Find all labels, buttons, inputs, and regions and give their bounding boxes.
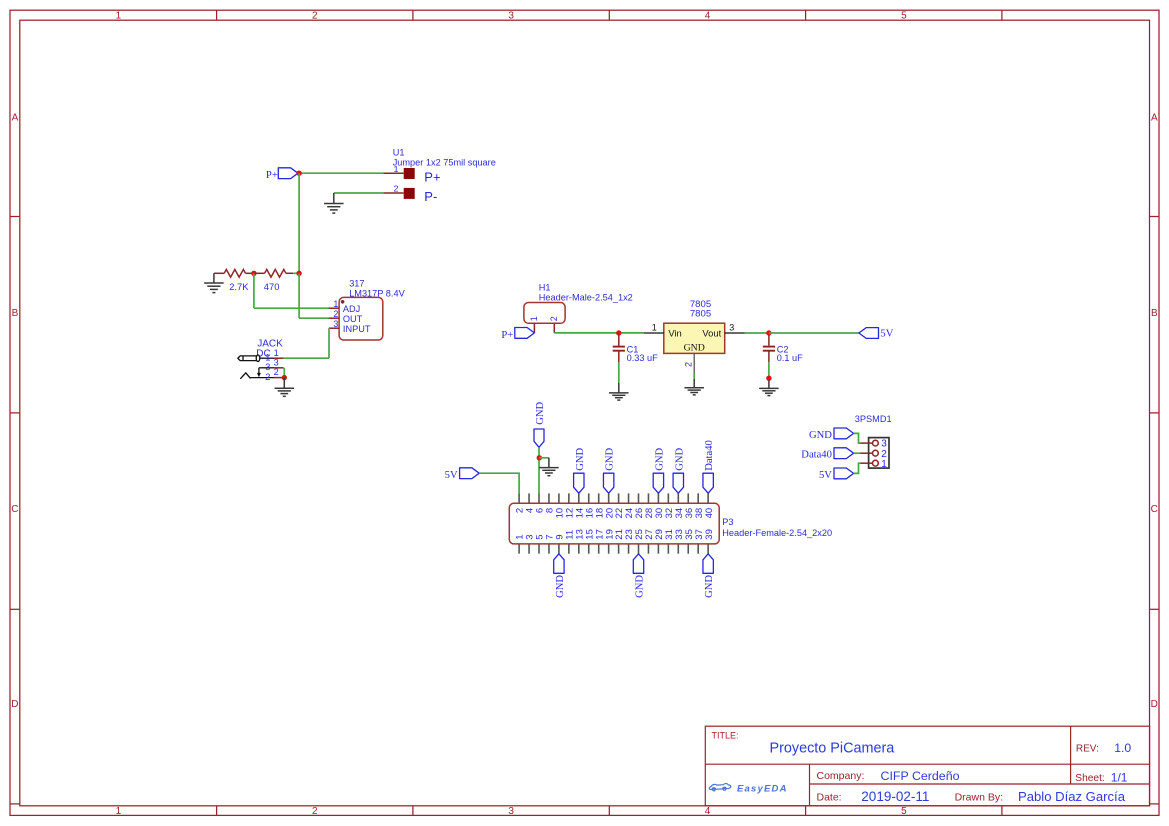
- U1 pin 1: [383, 172, 403, 174]
- svg-text:Proyecto PiCamera: Proyecto PiCamera: [770, 741, 895, 757]
- svg-text:3: 3: [508, 11, 514, 22]
- svg-text:5V: 5V: [445, 470, 458, 481]
- svg-text:GND: GND: [605, 447, 616, 470]
- wire GND to pin 3: [854, 433, 861, 443]
- wire INPUT down and left to jack: [328, 328, 330, 358]
- svg-text:1.0: 1.0: [1114, 741, 1131, 755]
- R2 body: [254, 272, 265, 274]
- svg-text:0.1 uF: 0.1 uF: [777, 353, 803, 363]
- J1 pin 3: [274, 367, 284, 369]
- wire jack pin3 to pin2: [283, 368, 285, 378]
- wire 5V to pin 1: [854, 463, 861, 473]
- svg-text:Company:: Company:: [817, 770, 865, 782]
- H1 pin 2: [553, 323, 555, 333]
- svg-text:EasyEDA: EasyEDA: [737, 784, 788, 795]
- svg-text:U1: U1: [393, 148, 405, 158]
- ground near P3 pin 6: [548, 458, 550, 468]
- svg-text:3: 3: [265, 362, 270, 372]
- net port GND (P3 pin 14): [574, 473, 584, 493]
- svg-text:Data40: Data40: [801, 450, 832, 461]
- U2 pin 1: [329, 307, 339, 309]
- svg-text:2: 2: [394, 184, 399, 194]
- svg-text:GND: GND: [704, 575, 715, 598]
- junction C1: [616, 330, 621, 335]
- 3PSMD1 pin 1: [860, 462, 873, 464]
- svg-text:2: 2: [274, 367, 279, 377]
- svg-text:40: 40: [704, 508, 715, 519]
- svg-text:1: 1: [333, 299, 338, 309]
- wire P+ down to resistor node: [298, 173, 300, 273]
- junction R1/R2: [251, 271, 256, 276]
- svg-text:1: 1: [394, 164, 399, 174]
- C2 body: [768, 335, 770, 346]
- resistor R2 470: [254, 269, 293, 292]
- net port GND (3PSMD1 pin 3): [834, 428, 854, 439]
- svg-text:2: 2: [333, 309, 338, 319]
- svg-text:Data40: Data40: [704, 440, 715, 471]
- wire node down to OUT level: [298, 273, 300, 318]
- svg-text:470: 470: [264, 281, 280, 292]
- wire to ADJ pin: [254, 307, 329, 309]
- net port Data40 (P3 pin 40): [703, 473, 713, 493]
- U2 pin 2: [329, 317, 339, 319]
- svg-text:GND: GND: [809, 430, 832, 441]
- svg-text:0.33 uF: 0.33 uF: [627, 353, 659, 363]
- svg-text:2019-02-11: 2019-02-11: [861, 789, 929, 804]
- resistor R1 2.7K: [214, 269, 254, 292]
- U2 body: [339, 297, 383, 340]
- U1 pad 2: [404, 188, 415, 199]
- svg-text:P-: P-: [424, 189, 437, 204]
- svg-text:5: 5: [901, 806, 907, 817]
- U1 pad 1: [404, 168, 415, 179]
- svg-text:REV:: REV:: [1076, 744, 1099, 755]
- P3 bottom row pins 1..39: [518, 544, 520, 554]
- net port GND (P3 pin 34): [673, 473, 683, 493]
- svg-text:GND: GND: [535, 401, 546, 424]
- J1 pin 2: [274, 377, 284, 379]
- svg-text:Sheet:: Sheet:: [1075, 773, 1104, 784]
- svg-text:2: 2: [683, 362, 693, 367]
- svg-text:C: C: [1151, 504, 1158, 515]
- junction C2: [766, 330, 771, 335]
- svg-text:A: A: [1151, 113, 1158, 124]
- svg-text:39: 39: [704, 529, 715, 540]
- svg-text:GND: GND: [635, 575, 646, 598]
- ground left of R1: [213, 273, 215, 283]
- svg-text:OUT: OUT: [343, 314, 363, 324]
- connector JACK DC: [238, 339, 284, 382]
- U2 pin 3: [329, 327, 339, 329]
- junction pin6 net: [537, 455, 542, 460]
- capacitor C1 0.33uF: [613, 335, 658, 363]
- U3 body: [664, 323, 725, 353]
- J1 sleeve contact chevron: [240, 373, 250, 379]
- svg-text:1/1: 1/1: [1111, 771, 1128, 785]
- net port GND (P3 pin 9): [554, 554, 564, 574]
- svg-text:Date:: Date:: [817, 791, 842, 803]
- net port P+ (top left): [278, 168, 298, 179]
- EasyEDA logo: [709, 784, 730, 791]
- svg-text:1: 1: [116, 806, 122, 817]
- wire C2 to ground: [768, 362, 770, 376]
- svg-text:3: 3: [508, 806, 514, 817]
- svg-text:1: 1: [116, 11, 122, 22]
- svg-text:ADJ: ADJ: [343, 304, 360, 314]
- J1 pin 1: [274, 357, 284, 359]
- wire R2 to vertical net: [293, 272, 299, 274]
- 3PSMD1 pin 2: [860, 452, 873, 454]
- net port GND (P3 pin 25): [633, 554, 643, 574]
- wire P+ to U1 pin 1: [298, 172, 383, 174]
- P3 top row pins 2..40: [518, 493, 520, 503]
- svg-text:3PSMD1: 3PSMD1: [855, 414, 892, 424]
- junction C2 ground: [766, 376, 771, 381]
- wire 7805 GND to ground: [693, 374, 695, 379]
- ground under C2: [768, 380, 770, 388]
- svg-text:D: D: [11, 699, 18, 710]
- U3 pin 2: [693, 353, 695, 374]
- svg-text:P+: P+: [424, 169, 440, 184]
- svg-text:D: D: [1151, 699, 1158, 710]
- svg-text:GND: GND: [654, 447, 665, 470]
- junction at vertical net: [296, 271, 301, 276]
- net port GND (P3 pin 39): [703, 554, 713, 574]
- svg-text:2.7K: 2.7K: [229, 281, 249, 292]
- ground under C1: [618, 383, 620, 393]
- U2 pin 1 marker dot: [341, 300, 345, 304]
- svg-text:P+: P+: [501, 330, 513, 341]
- H1 pin 1: [533, 323, 535, 333]
- svg-text:2: 2: [312, 806, 318, 817]
- svg-text:B: B: [12, 308, 19, 319]
- svg-text:B: B: [1151, 308, 1158, 319]
- svg-text:5V: 5V: [819, 470, 832, 481]
- svg-text:Pablo Díaz García: Pablo Díaz García: [1018, 789, 1126, 804]
- P3 body: [509, 503, 719, 544]
- svg-text:INPUT: INPUT: [343, 324, 371, 334]
- svg-text:GND: GND: [674, 447, 685, 470]
- capacitor C2 0.1uF: [763, 335, 803, 363]
- svg-text:A: A: [12, 113, 19, 124]
- svg-text:GND: GND: [555, 575, 566, 598]
- net port 5V (3PSMD1 pin 1): [834, 468, 854, 479]
- J1 barrel plug symbol: [238, 356, 257, 361]
- svg-text:GND: GND: [575, 447, 586, 470]
- component U1 Jumper 1x2: [383, 148, 496, 204]
- svg-text:CIFP Cerdeño: CIFP Cerdeño: [881, 769, 960, 783]
- svg-text:3: 3: [729, 322, 734, 332]
- U3 pin 3: [725, 332, 745, 334]
- wire junction to ground: [539, 457, 549, 459]
- svg-text:C: C: [11, 504, 18, 515]
- svg-text:Jumper 1x2 75mil square: Jumper 1x2 75mil square: [393, 157, 496, 167]
- 3PSMD1 pads and pin numbers 3,2,1: [873, 440, 879, 446]
- junction at P+: [296, 171, 301, 176]
- svg-text:317: 317: [349, 278, 364, 288]
- svg-text:TITLE:: TITLE:: [712, 731, 739, 741]
- svg-text:Header-Male-2.54_1x2: Header-Male-2.54_1x2: [539, 293, 633, 303]
- title block: [705, 726, 1149, 806]
- wire C1 to ground: [618, 362, 620, 383]
- wire 5V to P3 pin 2: [479, 473, 519, 493]
- svg-text:4: 4: [705, 11, 711, 22]
- net port 5V (right): [859, 328, 879, 339]
- wire to OUT pin: [299, 317, 329, 319]
- svg-text:1: 1: [529, 316, 539, 321]
- C1 body: [618, 335, 620, 346]
- ground at jack: [283, 378, 285, 389]
- svg-text:1: 1: [652, 322, 657, 332]
- header H1 Header-Male-2.54_1x2: [524, 283, 633, 333]
- wire 7805 Vout to C2: [745, 332, 769, 334]
- ground under U1 pin 2: [333, 193, 335, 203]
- wire ADJ node down: [253, 273, 255, 308]
- header P3 Header-Female-2.54_2x20: [509, 493, 832, 553]
- wire ground to U1 pin 2: [334, 192, 384, 194]
- net port GND (P3 pin 6): [534, 429, 544, 447]
- U3 pin 1: [644, 332, 664, 334]
- svg-text:Vout: Vout: [702, 328, 721, 339]
- svg-text:5V: 5V: [880, 328, 893, 339]
- net port GND (P3 pin 20): [603, 473, 613, 493]
- svg-text:1: 1: [881, 459, 887, 470]
- regulator U2 LM317P: [329, 278, 406, 340]
- regulator U3 7805: [644, 299, 745, 374]
- ground under 7805: [693, 379, 695, 388]
- wire GND to P3 pin 6: [538, 447, 540, 493]
- net port Data40 (3PSMD1 pin 2): [834, 448, 854, 459]
- svg-text:Drawn By:: Drawn By:: [955, 791, 1003, 803]
- H1 body: [524, 303, 565, 324]
- svg-text:5: 5: [901, 11, 907, 22]
- net port P+ at H1: [515, 328, 535, 339]
- wire C2 to 5V port: [769, 332, 859, 334]
- svg-text:4: 4: [705, 806, 711, 817]
- connector 3PSMD1: [855, 414, 892, 470]
- svg-text:H1: H1: [539, 283, 551, 293]
- junction jack pin2: [282, 375, 287, 380]
- svg-text:7805: 7805: [690, 309, 711, 320]
- R1 body: [214, 272, 224, 274]
- U1 pin 2: [383, 192, 403, 194]
- svg-text:Header-Female-2.54_2x20: Header-Female-2.54_2x20: [722, 528, 832, 538]
- 3PSMD1 pin 3: [860, 442, 873, 444]
- svg-text:2: 2: [265, 372, 270, 382]
- net port GND (P3 pin 30): [653, 473, 663, 493]
- svg-text:2: 2: [312, 11, 318, 22]
- svg-text:1: 1: [265, 353, 270, 363]
- wire H1 pin2 to 7805 Vin: [554, 332, 644, 334]
- svg-text:P3: P3: [722, 517, 733, 527]
- net port 5V (P3 pin 2): [460, 468, 480, 479]
- svg-text:Vin: Vin: [668, 328, 681, 339]
- svg-text:2: 2: [549, 316, 559, 321]
- svg-text:GND: GND: [684, 343, 705, 354]
- svg-text:P+: P+: [266, 170, 278, 181]
- 3PSMD1 body: [869, 438, 889, 469]
- J1 switch contact with arrow: [259, 367, 274, 369]
- wire Data40 to pin 2: [854, 452, 861, 454]
- svg-text:3: 3: [333, 319, 338, 329]
